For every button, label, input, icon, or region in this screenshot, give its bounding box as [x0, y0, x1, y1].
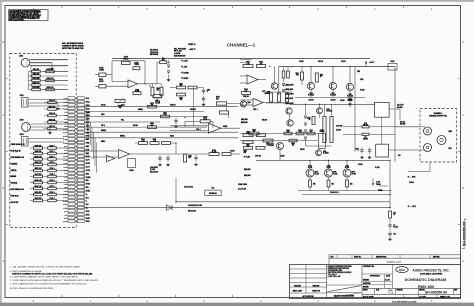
- svg-text:11 CP2: 11 CP2: [86, 170, 91, 172]
- svg-text:KL2 C2: KL2 C2: [400, 121, 405, 123]
- emitter resistor R250: [309, 180, 312, 187]
- svg-text:*1.000: *1.000: [134, 64, 139, 66]
- svg-text:9 LM2: 9 LM2: [64, 125, 68, 127]
- svg-text:FL-800: FL-800: [155, 103, 160, 105]
- svg-text:RMX 850: RMX 850: [294, 285, 301, 287]
- wire: [75, 186, 77, 188]
- svg-text:C123 .1: C123 .1: [49, 162, 54, 164]
- wire: [75, 220, 77, 222]
- wire: [389, 218, 391, 222]
- resistor R232 vertical: [278, 93, 281, 102]
- svg-text:10 CP1: 10 CP1: [86, 163, 91, 165]
- wire: [75, 107, 77, 109]
- wire VAS block outline: [354, 67, 356, 153]
- wire: [75, 155, 77, 157]
- resistor R201: [243, 65, 253, 68]
- svg-text:11 CP2: 11 CP2: [63, 197, 67, 199]
- scan edge top: [0, 0, 474, 2]
- svg-text:*R50 10K: *R50 10K: [243, 96, 249, 98]
- output transistor Q221: [306, 169, 314, 177]
- capacitor C126: [48, 181, 57, 184]
- svg-text:C127 .1: C127 .1: [49, 186, 54, 188]
- capacitor C120: [48, 147, 57, 150]
- capacitor C104: [202, 97, 205, 99]
- svg-text:FL-100: FL-100: [150, 169, 155, 171]
- svg-text:C2-100: C2-100: [409, 182, 414, 184]
- wire: [30, 200, 34, 202]
- resistor R136: [133, 92, 141, 95]
- resistor R221: [362, 133, 369, 135]
- svg-text:USED ON: USED ON: [312, 290, 320, 292]
- resistor R113: [34, 181, 43, 184]
- svg-text:*1.000: *1.000: [135, 91, 140, 93]
- svg-text:MODE-1: MODE-1: [101, 130, 106, 132]
- svg-text:R113 1.0K: R113 1.0K: [34, 180, 42, 182]
- resistor R244: [289, 139, 297, 142]
- svg-text:FB1: FB1: [86, 180, 89, 182]
- capacitor C128: [48, 193, 57, 196]
- op-amp U201 driver: [247, 75, 258, 84]
- svg-text:D: D: [462, 40, 464, 44]
- resistor R124 vertical: [151, 87, 154, 96]
- wire bus C: [84, 116, 208, 118]
- op-amp U102A: [119, 149, 130, 158]
- svg-text:C180: C180: [352, 171, 355, 173]
- svg-text:LIMIT (5): LIMIT (5): [11, 170, 17, 172]
- wire: [30, 176, 34, 178]
- svg-text:332: 332: [260, 63, 263, 65]
- resistor R101: [32, 70, 41, 72]
- svg-text:R101 10K: R101 10K: [33, 69, 39, 71]
- wire: [75, 145, 77, 147]
- svg-text:RMX 850: RMX 850: [418, 284, 434, 289]
- svg-text:C165: C165: [360, 79, 363, 81]
- ground KL chain: [389, 237, 391, 238]
- capacitor C107: [48, 127, 57, 130]
- svg-text:B: B: [462, 186, 464, 190]
- wire: [30, 194, 34, 196]
- ground C112: [195, 163, 197, 164]
- svg-text:MF-000: MF-000: [320, 131, 325, 133]
- svg-text:+15V: +15V: [189, 49, 194, 51]
- wire: [42, 80, 46, 82]
- svg-text:13 FB1: 13 FB1: [63, 204, 67, 206]
- connector J104 phone jack: [22, 137, 29, 147]
- ground J102: [57, 107, 59, 108]
- svg-text:10 CP1: 10 CP1: [63, 129, 67, 131]
- ground filter2: [167, 163, 169, 164]
- wire: [28, 89, 32, 91]
- svg-text:R108 10K: R108 10K: [35, 151, 43, 153]
- net flag cluster top: [194, 43, 196, 45]
- resistor R137: [154, 95, 162, 98]
- wire: [30, 170, 34, 172]
- svg-text:11 CP2: 11 CP2: [63, 132, 67, 134]
- svg-text:LIM2: LIM2: [86, 153, 90, 155]
- connector J202 binding post: [437, 136, 446, 145]
- title block outer box: [290, 265, 461, 299]
- net flag VLIM: [243, 156, 245, 158]
- svg-text:C2-100: C2-100: [341, 61, 346, 63]
- wire bus lower2: [240, 140, 318, 142]
- wire: [30, 188, 34, 190]
- svg-text:17 NC: 17 NC: [86, 211, 90, 213]
- net flag +15V: [181, 59, 183, 61]
- svg-text:C2-100: C2-100: [230, 151, 235, 153]
- wire relay column: [381, 117, 383, 144]
- svg-text:NOTES: UNLESS OTHERWISE SPECIF: NOTES: UNLESS OTHERWISE SPECIFIED: [10, 288, 54, 290]
- svg-text:→ KL2: → KL2: [410, 206, 416, 208]
- diode CR202: [282, 89, 284, 91]
- wire relay feeds: [343, 126, 362, 128]
- transistor Q220: [277, 143, 284, 150]
- svg-text:10K: 10K: [157, 90, 159, 92]
- svg-text:J103: J103: [20, 120, 24, 122]
- capacitor C103: [202, 89, 205, 91]
- svg-text:5 -15: 5 -15: [86, 129, 89, 131]
- svg-text:LIM-1: LIM-1: [101, 114, 105, 116]
- svg-text:BRIDGE: BRIDGE: [11, 176, 17, 178]
- svg-text:CLP1: CLP1: [86, 160, 90, 162]
- capacitor C125: [48, 175, 57, 178]
- resistor R140: [139, 142, 148, 145]
- output transistor Q223: [343, 169, 351, 177]
- output connector dashed box: [420, 109, 457, 163]
- resistor R211 vertical: [315, 73, 318, 82]
- svg-text:C: C: [2, 113, 4, 117]
- wire speaker return: [408, 171, 430, 173]
- svg-text:+VCC: +VCC: [369, 62, 375, 64]
- resistor R215 vertical: [312, 117, 315, 125]
- wire: [75, 169, 77, 171]
- wire collector drops: [310, 67, 312, 83]
- wire: [231, 153, 240, 155]
- wire J101 pins: [30, 59, 68, 61]
- wire: [28, 71, 32, 73]
- svg-text:ISSUED: ISSUED: [363, 287, 370, 289]
- svg-text:MH-C2-100: MH-C2-100: [188, 211, 196, 213]
- wire: [274, 67, 276, 83]
- emitter resistor R252: [346, 180, 349, 187]
- resistor chain R145: [222, 153, 231, 156]
- svg-text:C126 .1: C126 .1: [49, 180, 54, 182]
- diode CR101: [167, 65, 169, 67]
- svg-text:R107 10K: R107 10K: [35, 145, 43, 147]
- resistor C102: [32, 88, 41, 90]
- svg-text:R116 10K: R116 10K: [35, 198, 43, 200]
- resistor R108: [34, 152, 43, 155]
- resistor R151: [220, 111, 229, 114]
- wire: [75, 193, 77, 195]
- svg-text:C129 .1: C129 .1: [49, 198, 54, 200]
- op-amp U101A: [128, 80, 138, 88]
- svg-text:20K: 20K: [180, 85, 183, 87]
- svg-text:17 NC: 17 NC: [64, 218, 68, 220]
- wire inputs U101B: [170, 125, 209, 127]
- net flag speaker return: [407, 176, 409, 178]
- svg-text:C2-100 KL-2: C2-100 KL-2: [330, 192, 339, 194]
- svg-text:B: B: [3, 186, 5, 190]
- svg-text:10K: 10K: [244, 152, 246, 154]
- svg-text:8 LM1: 8 LM1: [64, 187, 68, 189]
- svg-text:R115 10K: R115 10K: [35, 192, 43, 194]
- svg-text:13 FB1: 13 FB1: [86, 184, 91, 186]
- svg-text:GND-1: GND-1: [101, 141, 105, 143]
- svg-text:CLIP IN OB: CLIP IN OB: [11, 202, 19, 204]
- svg-text:12 GND: 12 GND: [86, 177, 91, 179]
- QSC logo: [396, 267, 408, 273]
- wire: [75, 97, 77, 99]
- wire: [30, 158, 34, 160]
- svg-text:J101: J101: [19, 56, 23, 58]
- resistor R203 vertical: [282, 71, 285, 78]
- diode chain CR208: [304, 137, 306, 139]
- svg-text:REV: REV: [454, 289, 457, 291]
- diode chain CR207: [304, 130, 306, 132]
- wire: [168, 60, 170, 64]
- ground filter1: [159, 163, 161, 164]
- svg-text:QSC: QSC: [399, 268, 406, 272]
- svg-text:C2-100: C2-100: [336, 130, 341, 132]
- svg-text:PRL-N: PRL-N: [155, 101, 160, 103]
- svg-text:C2-100: C2-100: [280, 156, 285, 158]
- capacitor C105: [48, 101, 57, 104]
- capacitor C111: [166, 157, 169, 159]
- svg-text:600-100: 600-100: [400, 124, 405, 126]
- svg-text:600-100: 600-100: [363, 139, 368, 141]
- wire: [75, 128, 77, 130]
- wire: [75, 104, 77, 106]
- svg-text:1. THIS DRAWING USED IN CONJUN: 1. THIS DRAWING USED IN CONJUNCTION WITH…: [10, 282, 87, 285]
- resistor on bus R133: [148, 105, 157, 108]
- svg-text:15 V+: 15 V+: [86, 197, 90, 199]
- application block: [326, 265, 328, 299]
- svg-text:1K: 1K: [309, 119, 311, 121]
- resistor R260 vertical: [389, 211, 392, 218]
- svg-text:BRDG-1: BRDG-1: [120, 136, 125, 138]
- svg-text:15 V+: 15 V+: [64, 146, 68, 148]
- svg-text:MH-C2-100: MH-C2-100: [150, 171, 158, 173]
- svg-text:13 FB1: 13 FB1: [63, 139, 67, 141]
- svg-text:BF-100: BF-100: [300, 149, 305, 151]
- svg-text:C177: C177: [262, 91, 265, 93]
- svg-text:KL2: KL2: [398, 155, 401, 157]
- wire into panel: [419, 126, 425, 128]
- svg-text:680: 680: [296, 75, 298, 77]
- resistor R141: [150, 142, 159, 145]
- svg-text:18 SP1: 18 SP1: [86, 218, 91, 220]
- capacitor C151: [368, 149, 371, 151]
- wire J104: [28, 138, 64, 140]
- wire: [240, 99, 253, 101]
- wire: [75, 124, 77, 126]
- svg-text:*C52 .1: *C52 .1: [253, 109, 258, 111]
- svg-text:600-100: 600-100: [309, 100, 314, 102]
- svg-text:C2-100: C2-100: [358, 164, 363, 166]
- resistor R106: [46, 88, 55, 90]
- svg-text:.01: .01: [310, 131, 312, 133]
- connector J102 phone jack: [22, 98, 29, 108]
- svg-text:R202: R202: [259, 62, 263, 64]
- wire: [152, 84, 154, 87]
- resistor R129 feedback: [133, 67, 140, 70]
- transistor Q207: [307, 82, 314, 89]
- svg-text:600-100: 600-100: [363, 124, 368, 126]
- resistor R109: [34, 158, 43, 161]
- resistor R114: [34, 187, 43, 190]
- wire: [42, 71, 46, 73]
- resistor R204 vertical: [287, 71, 290, 78]
- diode chain CR206: [304, 123, 306, 125]
- svg-text:TH101: TH101: [129, 170, 134, 172]
- svg-text:.XX ± .01 ± 1°: .XX ± .01 ± 1°: [328, 274, 338, 276]
- svg-text:18 SP1: 18 SP1: [63, 156, 67, 158]
- capacitor C106: [48, 114, 57, 117]
- wire: [75, 176, 77, 178]
- svg-text:3. COMPONENTS MARKED WITH ⚠: 3. COMPONENTS MARKED WITH ⚠ ARE SAFETY C…: [10, 276, 79, 279]
- svg-text:CHANNEL—1: CHANNEL—1: [227, 43, 256, 48]
- svg-text:FL-100: FL-100: [269, 145, 274, 147]
- resistor R249: [256, 146, 265, 149]
- svg-text:KL-2 FL-100: KL-2 FL-100: [238, 189, 246, 191]
- relay K201: [375, 102, 390, 117]
- svg-text:FL-100: FL-100: [393, 226, 398, 228]
- svg-text:6 SG1: 6 SG1: [64, 180, 68, 182]
- svg-text:SH-000050-00: SH-000050-00: [425, 291, 447, 295]
- wire: [75, 189, 77, 191]
- svg-text:7 SG2: 7 SG2: [86, 143, 90, 145]
- capacitor C110: [158, 157, 161, 159]
- svg-text:10K: 10K: [151, 125, 154, 127]
- resistor R142: [162, 142, 171, 145]
- svg-text:FL-BULB: FL-BULB: [323, 153, 329, 155]
- svg-text:APPLICATION: APPLICATION: [302, 295, 314, 298]
- svg-text:C180: C180: [315, 171, 318, 173]
- output transistor Q222: [325, 169, 333, 177]
- ground CR102: [168, 78, 170, 79]
- wire: [272, 102, 286, 104]
- svg-text:SPK1: SPK1: [86, 214, 90, 216]
- resistor C101: [32, 79, 41, 81]
- wire emitter row: [295, 97, 365, 99]
- svg-text:SIG2: SIG2: [86, 139, 90, 141]
- svg-text:10 CP1: 10 CP1: [63, 194, 67, 196]
- svg-text:R52: R52: [350, 184, 353, 186]
- wire: [283, 67, 285, 72]
- wire: [75, 121, 77, 123]
- wire: [75, 135, 77, 137]
- resistor R102: [32, 75, 41, 77]
- transistor Q101: [240, 101, 246, 107]
- resistor cluster R127: [188, 86, 197, 89]
- wire limiter bus: [176, 201, 390, 203]
- resistor R217 tall: [330, 117, 333, 143]
- svg-text:332: 332: [292, 144, 294, 146]
- resistor R210 vertical: [301, 72, 304, 80]
- svg-text:R106 1.0K: R106 1.0K: [47, 87, 54, 89]
- svg-text:+/-0.5dB: +/-0.5dB: [174, 53, 181, 55]
- svg-text:PARTS IN COMMON TO BOTH CH. 1-: PARTS IN COMMON TO BOTH CH. 1-100, CH 1 …: [12, 272, 93, 275]
- resistor R116: [34, 199, 43, 202]
- wire: [170, 87, 177, 89]
- relay K202: [376, 144, 389, 157]
- wire relay1 out: [389, 108, 400, 110]
- connector J4A ribbon header: [68, 97, 75, 100]
- svg-text:COSTA MESA, CALIFORNIA: COSTA MESA, CALIFORNIA: [420, 273, 443, 276]
- svg-text:VLIM: VLIM: [246, 157, 251, 159]
- resistor on bus R134: [161, 115, 170, 118]
- wire: [75, 203, 77, 205]
- bias network box FB201: [388, 64, 397, 71]
- svg-text:A: A: [3, 259, 5, 263]
- wire bus D: [84, 121, 160, 123]
- svg-text:1.0K: 1.0K: [164, 114, 167, 116]
- zone tick marks and numbers: [61, 6, 63, 9]
- op-amp U202: [253, 98, 263, 106]
- svg-text:Q101: Q101: [247, 102, 251, 104]
- wire: [75, 165, 77, 167]
- svg-text:PRL-N: PRL-N: [123, 59, 129, 61]
- capacitor C129: [48, 199, 57, 202]
- svg-text:MODE (6): MODE (6): [11, 183, 18, 185]
- left cluster R245: [243, 134, 253, 137]
- wire stub top power: [240, 59, 252, 61]
- svg-text:FB12: FB12: [391, 61, 395, 63]
- svg-text:RMX 850: RMX 850: [313, 285, 320, 287]
- svg-text:CLP-1: CLP-1: [101, 125, 105, 127]
- ground J101: [51, 67, 53, 68]
- svg-text:C122 .1: C122 .1: [49, 156, 54, 158]
- resistor R104: [46, 70, 55, 72]
- tolerance block: [361, 265, 363, 299]
- ground J103: [49, 131, 51, 132]
- wire J102: [28, 99, 68, 101]
- svg-text:12 GND: 12 GND: [63, 136, 68, 138]
- svg-text:FLTR BRIDGE 0 OB: FLTR BRIDGE 0 OB: [11, 157, 24, 159]
- capacitor C124: [48, 169, 57, 172]
- wire J103 pins: [30, 123, 68, 125]
- capacitor C123: [48, 163, 57, 166]
- wire: [44, 108, 48, 110]
- wire: [75, 152, 77, 154]
- wire top rail: [112, 58, 370, 60]
- svg-text:C121 .1: C121 .1: [49, 151, 54, 153]
- wire: [75, 179, 77, 181]
- wire: [28, 80, 32, 82]
- transistor Q208: [329, 82, 336, 89]
- svg-text:10K: 10K: [119, 107, 122, 109]
- wire: [30, 147, 34, 149]
- wire: [75, 118, 77, 120]
- resistor R242: [284, 132, 292, 135]
- wire: [44, 115, 48, 117]
- svg-text:FL-100: FL-100: [360, 90, 365, 92]
- op-amp U101B: [209, 123, 221, 133]
- resistor R241: [263, 139, 273, 142]
- svg-text:FB2: FB2: [86, 187, 89, 189]
- svg-text:FSCM NO.: FSCM NO.: [397, 289, 404, 291]
- input board dashed outline: [10, 54, 76, 228]
- transistor Q224 bias: [316, 150, 322, 156]
- proprietary notice box: [9, 10, 49, 21]
- svg-text:C106 .22: C106 .22: [49, 113, 55, 115]
- svg-text:R102 10K: R102 10K: [33, 73, 39, 75]
- svg-text:7 SG2: 7 SG2: [64, 119, 68, 121]
- svg-text:6 SG1: 6 SG1: [64, 115, 68, 117]
- svg-text:SIG-1B: SIG-1B: [133, 125, 138, 127]
- wire: [75, 183, 77, 185]
- svg-text:9 LM2: 9 LM2: [64, 190, 68, 192]
